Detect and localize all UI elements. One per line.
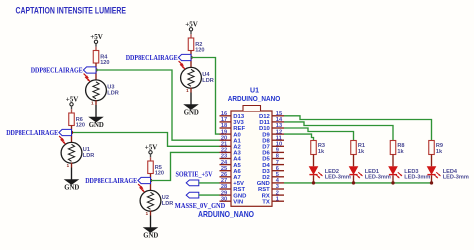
ground (circuit U2) [144,228,157,233]
pin 22 (A3) left [220,148,242,157]
wire D9 to R3 [284,134,314,140]
svg-text:R8: R8 [397,143,404,149]
wire net U2 node to A3 [151,152,220,180]
svg-text:LDR: LDR [162,201,174,207]
svg-text:GND: GND [257,181,270,187]
pin LED4 to GND rail [431,175,433,183]
node DDP8ECLAIRAGE junction at R6 [70,131,73,134]
net name MASSE_0V_GND [175,202,226,210]
LED LED3 [389,167,398,175]
svg-text:GND: GND [64,185,79,192]
pin 28 (RST) left [220,184,246,193]
svg-text:A1: A1 [233,138,241,144]
label R8 1k [397,143,404,155]
pin node to U2 [150,181,152,192]
LDR U2 [140,190,161,211]
light arrows U1 [59,136,65,144]
label ARDUINO_NANO (top) [228,94,281,103]
label GND (U4) [184,110,199,117]
svg-text:DDP8ECLAIRAGE: DDP8ECLAIRAGE [85,177,137,185]
svg-text:22: 22 [221,148,227,154]
pin 7 (D4) right [262,160,284,169]
svg-text:27: 27 [221,178,227,184]
junction LED2 cathode [312,181,315,184]
net name DDP8ECLAIRAGE (R4) [31,67,83,75]
pin R5 to node [150,174,152,181]
net name DDP8ECLAIRAGE (R5) [85,177,137,185]
svg-text:RST: RST [258,187,270,193]
svg-text:25: 25 [221,166,227,172]
svg-text:D6: D6 [262,151,270,157]
label R4 120 [100,55,109,67]
svg-text:120: 120 [76,123,85,129]
wire net U3 node to A1 [96,70,220,140]
label GND (U2) [143,233,158,240]
svg-text:13: 13 [276,123,282,129]
svg-text:11: 11 [276,135,282,141]
wire U4 to GND [190,93,192,106]
pin 23 (A4) left [220,154,242,163]
svg-text:LDR: LDR [83,153,95,159]
svg-text:7: 7 [276,160,279,166]
svg-text:GND: GND [143,233,158,240]
label LED2 LED-3mm [325,169,351,180]
wire +5V to R4 [95,44,97,51]
svg-text:SORTIE_+5V: SORTIE_+5V [176,171,214,179]
label U4 LDR [202,72,214,84]
svg-text:LDR: LDR [107,91,119,97]
label U1 [250,87,259,94]
svg-text:+5V: +5V [233,181,244,187]
pin R6 to node [71,126,73,133]
svg-text:TX: TX [262,199,270,205]
wire D10 to R1 [284,128,354,141]
label U2 LDR [162,195,174,207]
svg-text:120: 120 [195,48,204,54]
arduino U1 body [231,106,272,207]
pin 14 (D11) right [259,117,284,126]
svg-text:ARDUINO_NANO: ARDUINO_NANO [228,94,281,103]
svg-text:MASSE_0V_GND: MASSE_0V_GND [175,202,226,210]
junction LED1 cathode [352,181,355,184]
pin 1 of U2 [146,211,151,216]
pin 20 (A1) left [220,135,242,144]
wire U1 to GND [71,168,73,181]
pin R1 to LED1 [353,155,355,167]
pin R2 to node [190,51,192,58]
svg-text:D13: D13 [233,114,245,120]
wire +5V to R6 [71,106,73,113]
svg-text:8: 8 [276,154,279,160]
LED LED1 [349,167,358,175]
svg-text:10: 10 [276,142,282,148]
ground (circuit U3) [90,117,103,122]
pin 19 (A0) left [220,129,242,138]
pin 10 (D7) right [262,142,284,151]
svg-text:14: 14 [276,117,283,123]
label LED1 LED-3mm [365,169,391,180]
label LED4 LED-3mm [443,169,469,180]
svg-text:A2: A2 [233,145,241,151]
label R5 120 [155,165,164,177]
emission arrows LED4 [434,172,441,178]
wire U3 to GND [95,105,97,118]
light arrows U4 [179,61,185,69]
pin 25 (A6) left [220,166,242,175]
emission arrows LED1 [356,172,363,178]
LED LED2 [309,167,318,175]
resistor R8 [390,141,396,155]
global label flag DDP8ECLAIRAGE (node R6) [59,129,72,135]
label GND (U3) [89,122,104,129]
pin LED1 to GND rail [353,175,355,183]
svg-text:+5V: +5V [185,20,198,28]
svg-text:R1: R1 [358,143,365,149]
junction LED3 cathode [391,181,394,184]
svg-text:LED-3mm: LED-3mm [365,175,391,181]
svg-text:9: 9 [276,148,279,154]
power +5V (circuit R6) [66,95,79,106]
power +5V (circuit R4) [90,33,103,44]
pin 21 (A2) left [220,142,242,151]
svg-text:17: 17 [221,117,227,123]
global label flag SORTIE_+5V [186,180,199,186]
pin 2 (RX) right [262,190,284,199]
global label flag DDP8ECLAIRAGE (node R5) [138,177,151,183]
svg-text:A7: A7 [233,175,241,181]
svg-text:D7: D7 [262,145,270,151]
svg-text:15: 15 [276,111,282,117]
pin 11 (D8) right [262,135,284,144]
ground (circuit U1) [65,180,78,185]
light arrows U2 [138,184,144,192]
net name SORTIE_+5V [176,171,214,179]
svg-text:1k: 1k [318,149,325,155]
svg-text:D8: D8 [262,138,270,144]
node DDP8ECLAIRAGE junction at R4 [94,68,97,71]
svg-text:1k: 1k [436,149,443,155]
svg-text:A0: A0 [233,132,241,138]
pin R3 to LED2 [313,155,315,167]
pin 3 (RST) right [258,184,284,193]
svg-text:+5V: +5V [66,95,79,103]
LED LED4 [427,167,436,175]
resistor R1 [351,141,357,155]
emission arrows LED3 [395,172,402,178]
svg-text:26: 26 [221,172,227,178]
global label flag DDP8ECLAIRAGE (node R4) [83,67,96,73]
pin 16 (D13) left [220,111,245,120]
svg-text:DDP8ECLAIRAGE: DDP8ECLAIRAGE [31,67,83,75]
svg-text:+5V: +5V [145,143,158,151]
global label flag DDP8ECLAIRAGE (node R2) [178,54,191,60]
node DDP8ECLAIRAGE junction at R5 [149,179,152,182]
svg-text:1k: 1k [397,149,404,155]
svg-text:1k: 1k [358,149,365,155]
wire net U4 node to A0 [191,58,220,135]
svg-text:3: 3 [276,184,279,190]
global label flag MASSE_0V_GND [186,192,199,198]
resistor R5 [148,161,154,174]
svg-text:DDP8ECLAIRAGE: DDP8ECLAIRAGE [126,54,178,62]
svg-text:3V3: 3V3 [233,120,244,126]
svg-text:28: 28 [221,184,227,190]
pin 4 (GND) right [257,178,284,187]
pin 12 (D9) right [262,129,284,138]
pin 18 (REF) left [220,123,246,132]
pin 1 (TX) right [262,196,284,205]
svg-text:29: 29 [221,190,227,196]
resistor R6 [69,113,75,126]
svg-text:21: 21 [221,142,227,148]
pin R9 to LED4 [431,155,433,167]
title text [16,5,127,15]
svg-text:23: 23 [221,154,227,160]
pin R4 to node [95,63,97,70]
node DDP8ECLAIRAGE junction at R2 [189,56,192,59]
svg-text:R9: R9 [436,143,443,149]
power +5V (circuit R5) [145,143,158,154]
svg-text:19: 19 [221,129,227,135]
svg-text:D3: D3 [262,169,270,175]
svg-text:A3: A3 [233,151,241,157]
svg-text:+5V: +5V [90,33,103,41]
resistor R2 [188,38,194,51]
label R2 120 [195,42,204,54]
resistor R9 [429,141,435,155]
wire D11 to R8 [284,122,393,141]
emission arrows LED2 [316,172,323,178]
svg-text:A6: A6 [233,169,241,175]
wire D12 to R9 [284,116,432,141]
pin 15 (D12) right [259,111,284,120]
LDR U4 [181,67,202,88]
pin 26 (A7) left [220,172,242,181]
pin 8 (D5) right [262,154,284,163]
wire +5V to R5 [150,154,152,161]
svg-text:D10: D10 [259,126,271,132]
svg-text:D4: D4 [262,163,270,169]
label U3 LDR [107,85,119,97]
svg-text:A4: A4 [233,157,241,163]
label ARDUINO_NANO (bottom) [198,210,255,219]
power +5V (circuit R2) [185,20,198,31]
svg-text:GND: GND [233,193,246,199]
pin 29 (GND) left [220,190,247,199]
pin node to U1 [71,133,73,144]
pin LED3 to GND rail [392,175,394,183]
wire U2 to GND [150,216,152,229]
label R9 1k [436,143,443,155]
LDR U1 [61,142,82,163]
pin 5 (D2) right [262,172,284,181]
pin 6 (D3) right [262,166,284,175]
svg-text:12: 12 [276,129,282,135]
svg-text:120: 120 [155,171,164,177]
resistor R3 [311,141,317,155]
wire GND rail (pin 4 to LEDs) [284,182,432,184]
svg-text:6: 6 [276,166,279,172]
pin 17 (3V3) left [220,117,245,126]
pin 9 (D6) right [262,148,284,157]
svg-text:LED-3mm: LED-3mm [404,175,430,181]
wire SORTIE_+5V to pin 27 [199,182,220,184]
svg-text:1: 1 [276,196,279,202]
svg-text:RST: RST [233,187,245,193]
svg-text:24: 24 [221,160,228,166]
svg-text:120: 120 [100,60,109,66]
pin 1 of U4 [186,88,191,93]
LDR U3 [86,80,107,101]
svg-text:18: 18 [221,123,227,129]
label R1 1k [358,143,365,155]
pin 1 of U1 [67,163,72,168]
pin 1 of U3 [91,100,96,105]
svg-text:GND: GND [184,110,199,117]
pin node to U3 [95,70,97,81]
wire +5V to R2 [190,31,192,38]
label R6 120 [76,117,85,129]
svg-text:GND: GND [89,122,104,129]
pin R8 to LED3 [392,155,394,167]
net name DDP8ECLAIRAGE (R6) [6,129,58,137]
svg-text:D9: D9 [262,132,270,138]
label U1 LDR [83,147,95,159]
svg-text:D2: D2 [262,175,270,181]
svg-text:LED-3mm: LED-3mm [443,175,469,181]
resistor R4 [93,51,99,64]
svg-text:ARDUINO_NANO: ARDUINO_NANO [198,210,255,219]
junction LED4 cathode [430,181,433,184]
svg-text:VIN: VIN [233,199,243,205]
svg-text:D5: D5 [262,157,270,163]
ground (circuit U4) [185,105,198,110]
svg-text:CAPTATION INTENSITE LUMIERE: CAPTATION INTENSITE LUMIERE [16,5,127,15]
svg-text:16: 16 [221,111,227,117]
svg-text:A5: A5 [233,163,241,169]
net name DDP8ECLAIRAGE (R2) [126,54,178,62]
pin 30 (VIN) left [220,196,244,205]
svg-text:D11: D11 [259,120,270,126]
svg-text:R3: R3 [318,143,325,149]
pin 13 (D10) right [259,123,284,132]
label LED3 LED-3mm [404,169,430,180]
svg-text:5: 5 [276,172,279,178]
pin 24 (A5) left [220,160,242,169]
wire net U1 node to A2 [73,133,220,147]
svg-text:LDR: LDR [202,78,214,84]
label R3 1k [318,143,325,155]
pin node to U4 [190,58,192,69]
svg-text:REF: REF [233,126,245,132]
svg-text:D12: D12 [259,114,271,120]
svg-text:20: 20 [221,135,227,141]
pin 27 (+5V) left [220,178,245,187]
svg-text:RX: RX [262,193,270,199]
svg-text:DDP8ECLAIRAGE: DDP8ECLAIRAGE [6,129,58,137]
light arrows U3 [84,74,90,82]
wire MASSE_0V_GND to pin 29 [199,194,220,196]
svg-text:2: 2 [276,190,279,196]
label GND (U1) [64,185,79,192]
svg-text:LED-3mm: LED-3mm [325,175,351,181]
pin LED2 to GND rail [313,175,315,183]
